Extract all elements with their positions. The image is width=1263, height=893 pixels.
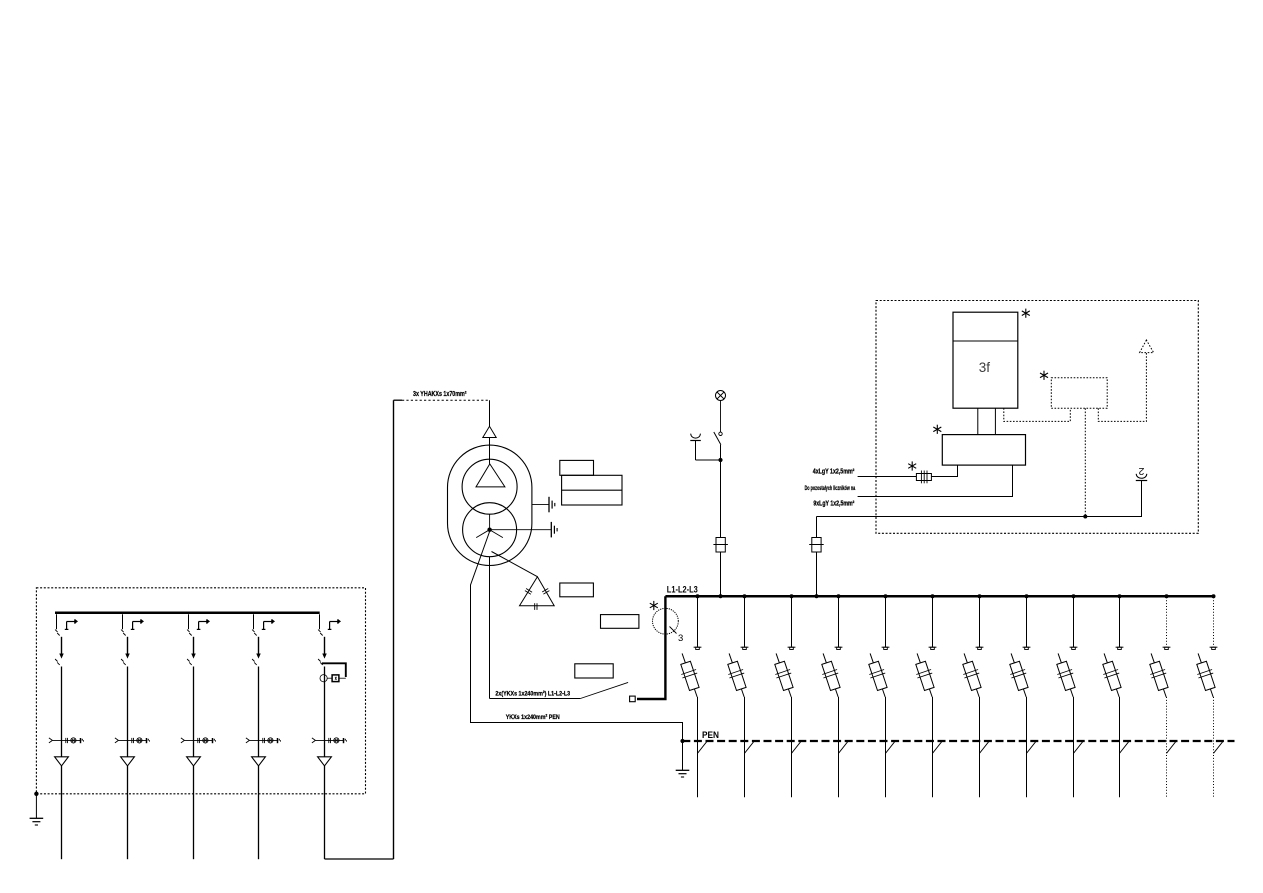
svg-text:2x(YKXs 1x240mm²) L1-L2-L3: 2x(YKXs 1x240mm²) L1-L2-L3	[495, 691, 570, 698]
svg-text:3f: 3f	[979, 360, 991, 375]
svg-text:Do pozostałych liczników na: Do pozostałych liczników na	[805, 485, 856, 492]
svg-text:PEN: PEN	[702, 730, 719, 741]
svg-text:L1-L2-L3: L1-L2-L3	[667, 585, 698, 595]
svg-text:4xLgY 1x2,5mm²: 4xLgY 1x2,5mm²	[813, 468, 855, 475]
svg-text:2: 2	[1138, 465, 1144, 477]
svg-text:3x YHAKXs 1x70mm²: 3x YHAKXs 1x70mm²	[413, 389, 467, 398]
svg-text:3: 3	[678, 633, 683, 644]
svg-text:9xLgY 1x2,5mm²: 9xLgY 1x2,5mm²	[813, 500, 854, 507]
svg-text:YKXs 1x240mm² PEN: YKXs 1x240mm² PEN	[506, 714, 560, 721]
